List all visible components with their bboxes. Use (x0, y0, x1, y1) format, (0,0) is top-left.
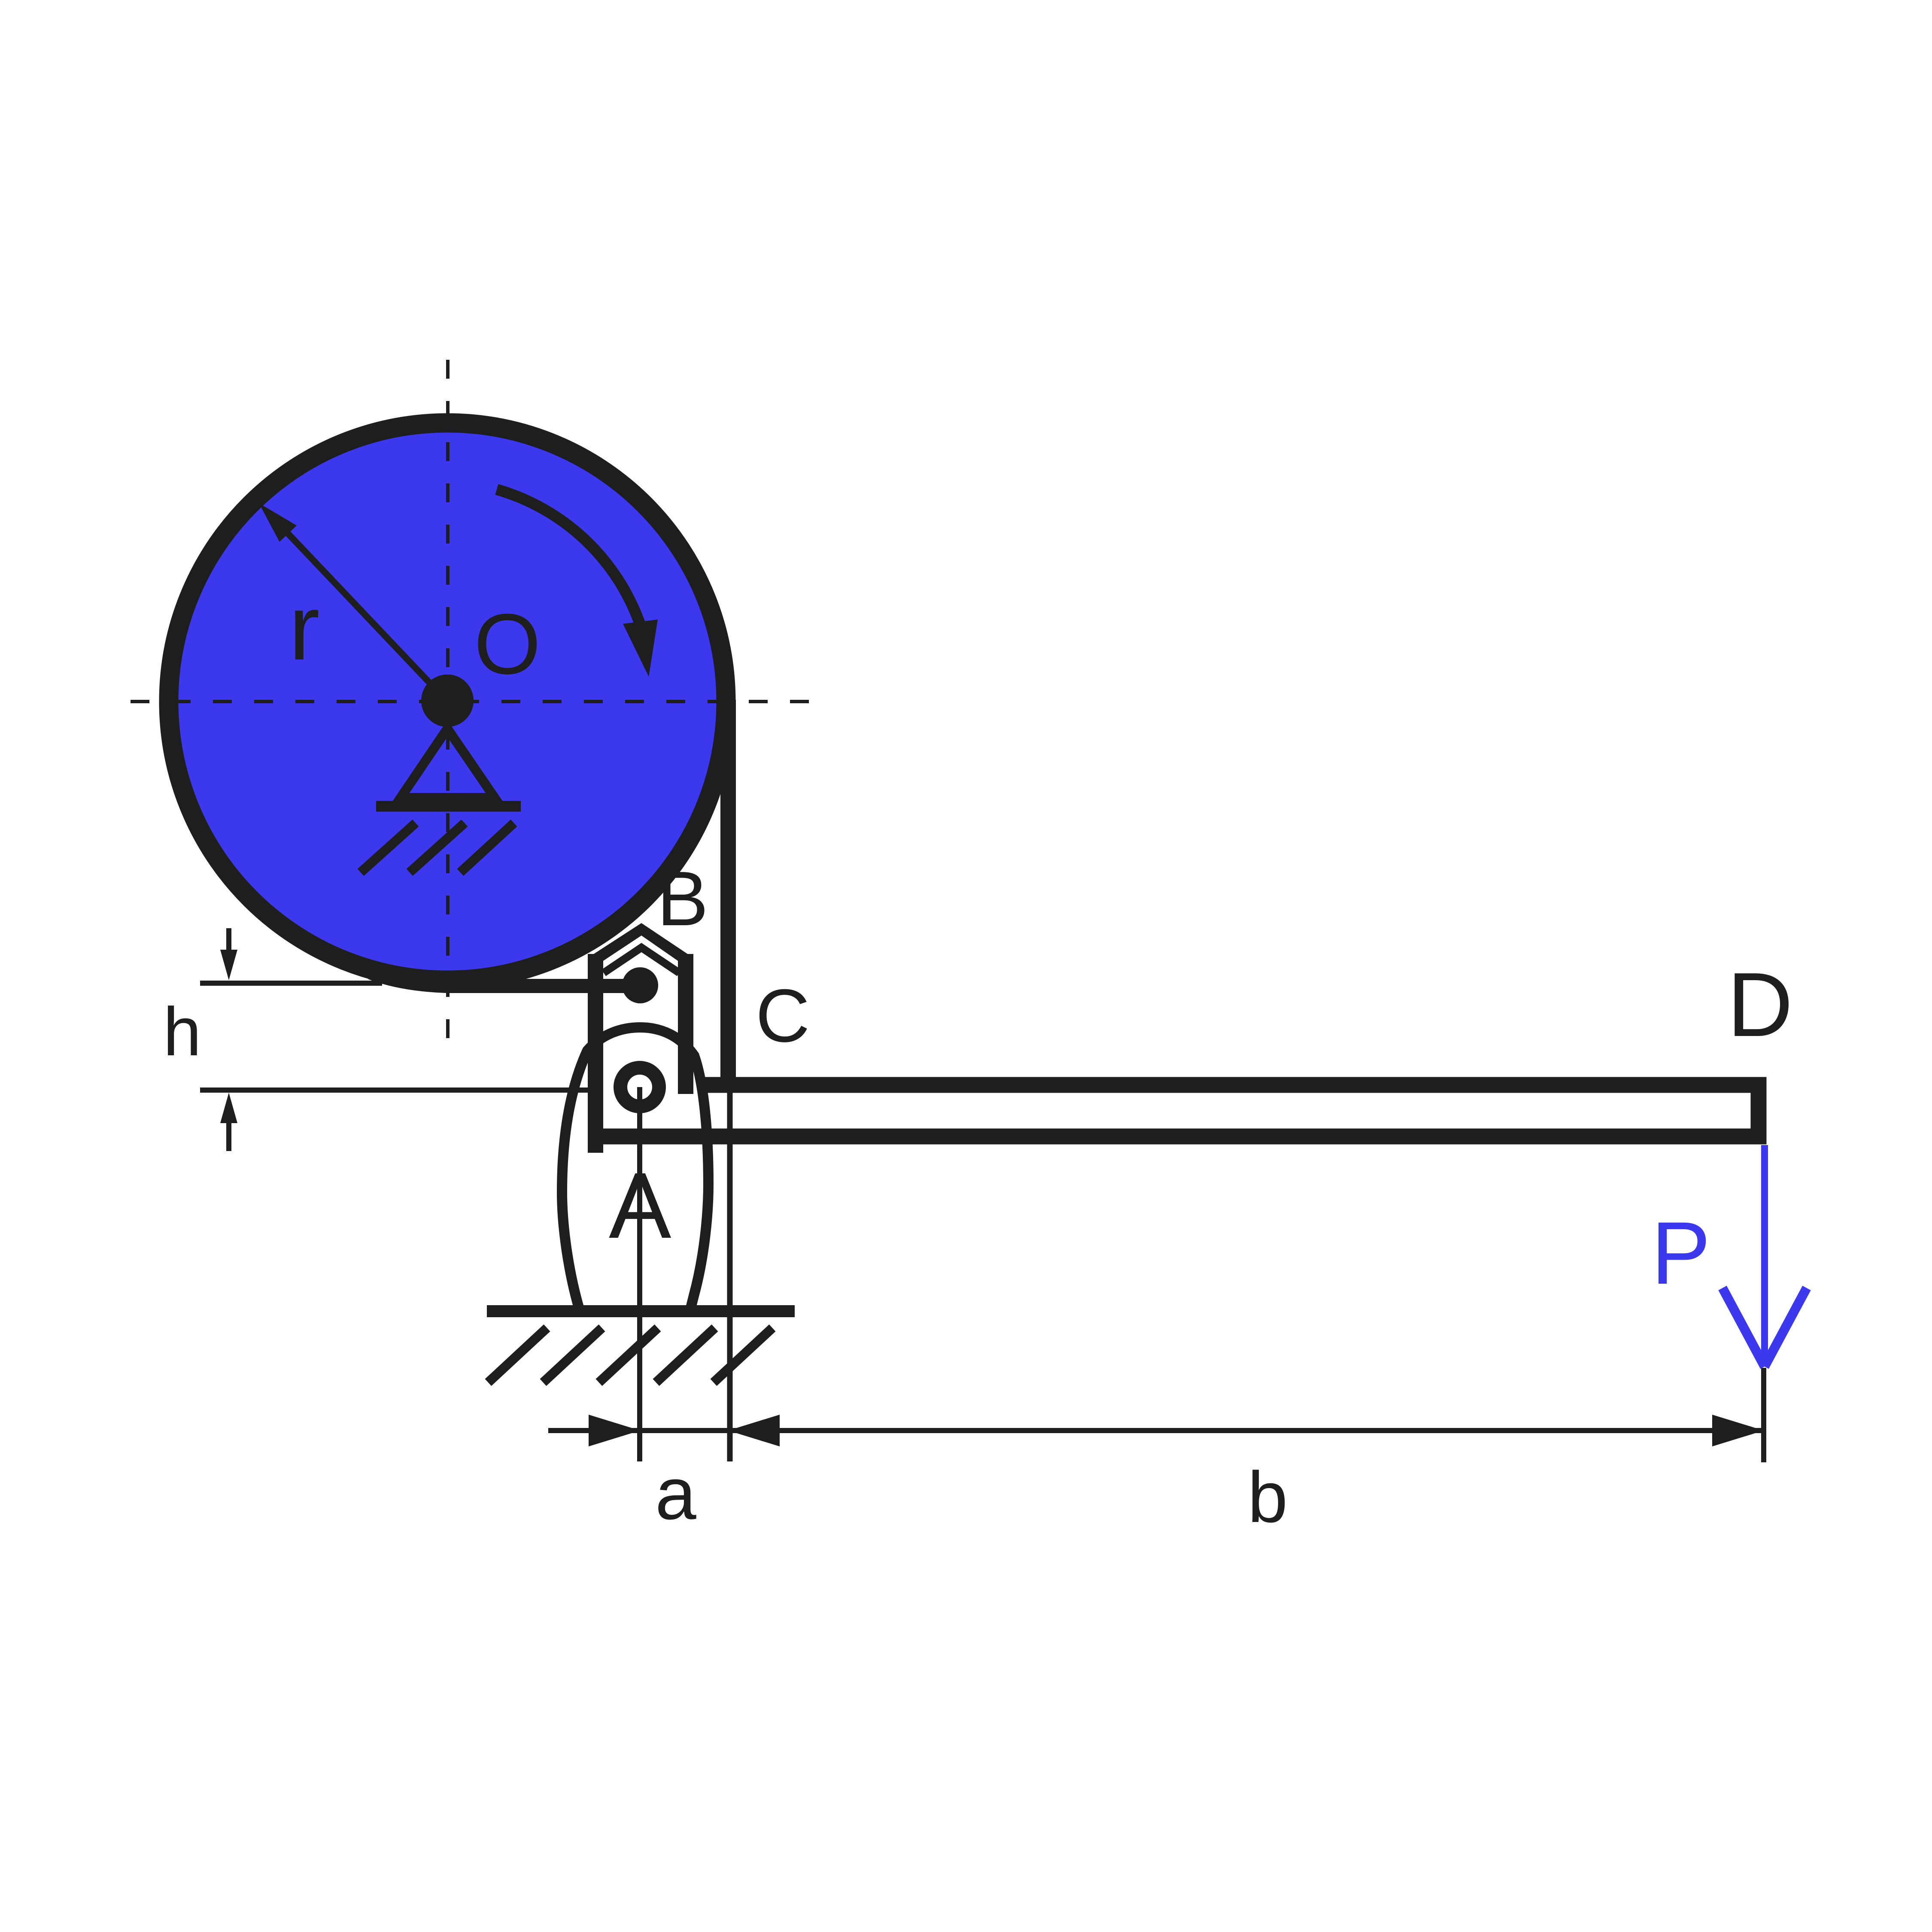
svg-text:h: h (163, 993, 201, 1070)
svg-text:b: b (1248, 1457, 1288, 1537)
svg-text:A: A (609, 1154, 671, 1258)
svg-text:O: O (474, 596, 541, 692)
svg-text:B: B (657, 856, 708, 942)
svg-text:a: a (655, 1452, 696, 1535)
svg-text:P: P (1651, 1203, 1710, 1303)
svg-text:r: r (289, 576, 320, 679)
svg-text:D: D (1727, 954, 1793, 1055)
svg-text:C: C (756, 974, 810, 1058)
